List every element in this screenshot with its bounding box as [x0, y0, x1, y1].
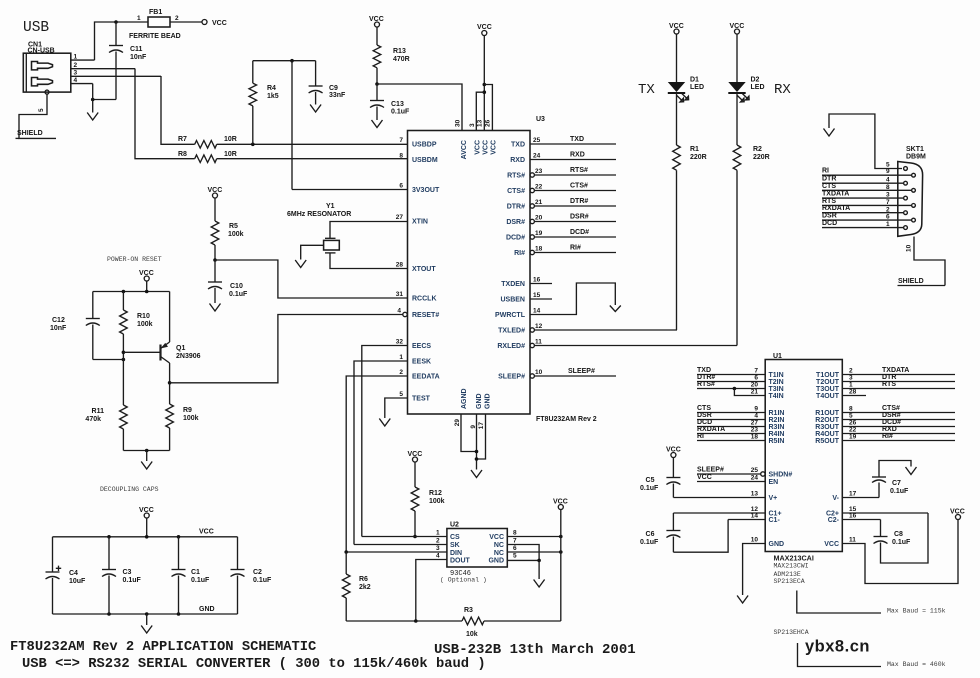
svg-text:SLEEP#: SLEEP# [697, 467, 724, 474]
resistor R2 [733, 145, 770, 346]
svg-text:1: 1 [137, 15, 141, 22]
svg-text:CTS: CTS [822, 183, 836, 190]
U1 pin 7 T1IN [697, 367, 784, 379]
svg-text:10: 10 [906, 244, 913, 252]
svg-text:19: 19 [849, 434, 857, 441]
svg-text:C5: C5 [646, 477, 655, 484]
svg-text:DTR#: DTR# [570, 198, 588, 205]
svg-text:XTIN: XTIN [412, 219, 428, 226]
DB9 pin circles right column [912, 173, 916, 222]
ground (U2) [534, 580, 545, 588]
svg-text:27: 27 [396, 214, 404, 221]
U1 pin 16 C2- [828, 513, 881, 525]
pin 25 TXD [511, 136, 616, 149]
svg-text:1: 1 [436, 530, 440, 537]
svg-text:2: 2 [399, 369, 403, 376]
pin 11 RXLED# [497, 339, 737, 351]
resistor R8 [178, 151, 237, 163]
VCC terminal (D2) [730, 23, 745, 34]
svg-text:SLEEP#: SLEEP# [498, 374, 525, 381]
svg-text:USB-232B 13th March 2001: USB-232B 13th March 2001 [434, 642, 636, 658]
wire RCCLK [215, 260, 408, 298]
pin 1 EESK [399, 354, 431, 366]
label SP213EHCA [774, 629, 809, 636]
svg-text:13: 13 [477, 119, 484, 127]
DB9 pin 10 shield tab [906, 237, 946, 286]
svg-text:DTR#: DTR# [697, 374, 715, 381]
U1 pin 24 EN [697, 474, 778, 486]
pin 21 DTR# [507, 198, 616, 211]
node R5/C10/RCCLK [213, 258, 217, 262]
svg-text:1: 1 [74, 54, 78, 61]
U2 pin 3 DIN [344, 545, 462, 557]
svg-text:28: 28 [396, 262, 404, 269]
svg-text:100k: 100k [228, 231, 244, 238]
connector CN1 CN-USB [23, 42, 71, 113]
svg-text:FT8U232AM Rev 2: FT8U232AM Rev 2 [536, 416, 597, 423]
U1 pin 11 VCC [824, 520, 958, 584]
svg-text:0.1uF: 0.1uF [391, 109, 410, 116]
U1 pin 25 SHDN# [697, 467, 792, 479]
svg-text:EESK: EESK [412, 359, 431, 366]
svg-text:TXDEN: TXDEN [501, 281, 525, 288]
wire base [123, 351, 159, 353]
svg-text:14: 14 [533, 308, 541, 315]
svg-text:SHIELD: SHIELD [17, 130, 43, 137]
svg-text:DTR#: DTR# [507, 204, 525, 211]
IC U3 FT8U232AM [408, 116, 597, 423]
resistor R5 [211, 198, 243, 260]
svg-text:GND: GND [488, 558, 504, 565]
pin 8 USBDM [399, 153, 437, 165]
U1 pin 1 T3OUT [816, 381, 955, 393]
svg-text:18: 18 [751, 434, 759, 441]
svg-text:DOUT: DOUT [450, 558, 471, 565]
capacitor C10 [208, 260, 248, 303]
DB9 pin 5 number [886, 162, 890, 169]
capacitor C1 [172, 537, 211, 614]
svg-text:DCD#: DCD# [570, 229, 589, 236]
svg-text:14: 14 [751, 513, 759, 520]
svg-text:SHIELD: SHIELD [898, 278, 924, 285]
IC U2 93C46 [440, 522, 507, 584]
U2 pin 7 NC [494, 538, 539, 561]
U1 pin 8 R1OUT [815, 405, 955, 417]
svg-text:R9: R9 [183, 407, 192, 414]
U2 pin 6 NC [494, 545, 563, 557]
svg-text:25: 25 [533, 137, 541, 144]
svg-text:0.1uF: 0.1uF [640, 485, 659, 492]
svg-text:Q1: Q1 [176, 345, 185, 352]
svg-text:9: 9 [754, 406, 758, 413]
node collector [168, 381, 172, 385]
svg-text:RXDATA: RXDATA [822, 205, 850, 212]
svg-text:13: 13 [751, 491, 759, 498]
svg-text:C9: C9 [329, 85, 338, 92]
svg-text:C8: C8 [894, 531, 903, 538]
svg-text:5: 5 [849, 413, 853, 420]
svg-text:0.1uF: 0.1uF [229, 291, 248, 298]
svg-text:RXDATA: RXDATA [697, 426, 725, 433]
svg-text:R5OUT: R5OUT [815, 438, 839, 445]
svg-text:R4IN: R4IN [769, 431, 785, 438]
svg-text:17: 17 [849, 491, 857, 498]
VCC terminal (FB1) [202, 20, 227, 28]
ground (decaps) [141, 614, 152, 633]
svg-text:R11: R11 [92, 408, 105, 415]
svg-text:RTS: RTS [882, 381, 896, 388]
U1 pin 4 R2IN [697, 412, 784, 424]
svg-text:DB9M: DB9M [906, 154, 926, 161]
svg-text:RI#: RI# [514, 250, 525, 257]
capacitor C8 [874, 513, 929, 563]
svg-text:10k: 10k [466, 631, 478, 638]
U1 pin 21 T4IN [734, 389, 783, 401]
U1 pin 6 T2IN [697, 374, 784, 386]
svg-text:26: 26 [485, 119, 492, 127]
svg-text:9: 9 [886, 168, 890, 175]
VCC terminal (reset) [139, 270, 154, 281]
pin 28 XTOUT [396, 262, 437, 274]
svg-text:R4: R4 [267, 85, 276, 92]
svg-text:USBDP: USBDP [412, 142, 437, 149]
svg-text:DSR#: DSR# [882, 412, 901, 419]
connector SKT1 DB9M [898, 146, 926, 236]
svg-text:7: 7 [513, 538, 517, 545]
resistor R9 [166, 383, 199, 451]
ground (PWRCTL arrow) [610, 306, 621, 312]
resistor R11 [85, 405, 127, 451]
U1 pin 5 R2OUT [815, 412, 955, 424]
svg-text:100k: 100k [183, 415, 199, 422]
svg-text:C13: C13 [391, 101, 404, 108]
wire DOUT pull-up row [346, 619, 462, 623]
logo ybx8.cn [805, 638, 870, 656]
pin 7 USBDP [399, 137, 436, 149]
svg-text:DCD#: DCD# [506, 235, 525, 242]
wire EESK [354, 361, 408, 545]
ground (U1) [737, 596, 748, 604]
svg-text:2: 2 [436, 538, 440, 545]
svg-text:1: 1 [399, 354, 403, 361]
capacitor C6 [640, 513, 728, 552]
wire GND rail (decaps) [53, 606, 238, 616]
svg-text:7: 7 [754, 368, 758, 375]
svg-text:C1: C1 [191, 569, 200, 576]
svg-text:RXLED#: RXLED# [497, 343, 525, 350]
VCC terminal (U2) [553, 499, 568, 622]
svg-text:MAX213CWI: MAX213CWI [774, 563, 809, 570]
svg-text:R1OUT: R1OUT [815, 410, 839, 417]
svg-text:16: 16 [533, 277, 541, 284]
pin 16 TXDEN [501, 277, 552, 289]
svg-text:2k2: 2k2 [359, 584, 371, 591]
U1 pin 20 T3IN [697, 381, 784, 393]
svg-text:DTR: DTR [882, 374, 896, 381]
svg-text:R7: R7 [178, 136, 187, 143]
wire pin1 up to FB1 [95, 22, 117, 60]
svg-text:22: 22 [849, 427, 857, 434]
label DECOUPLING CAPS [100, 486, 159, 493]
pin 18 RI# [514, 245, 616, 258]
svg-text:8: 8 [399, 153, 403, 160]
svg-text:470R: 470R [393, 56, 410, 63]
svg-text:29: 29 [454, 419, 461, 427]
ground (C7) [906, 467, 917, 475]
svg-text:RCCLK: RCCLK [412, 296, 437, 303]
svg-text:100k: 100k [137, 321, 153, 328]
svg-text:2: 2 [175, 15, 179, 22]
net SHIELD (DB9) [898, 278, 946, 286]
resistor R10 [120, 292, 153, 406]
ferrite bead FB1 [116, 9, 202, 40]
svg-text:DCD#: DCD# [882, 419, 901, 426]
svg-text:10: 10 [751, 537, 759, 544]
svg-text:220R: 220R [690, 154, 707, 161]
svg-text:FERRITE BEAD: FERRITE BEAD [129, 33, 181, 40]
ground (C13) [372, 120, 383, 128]
svg-text:33nF: 33nF [329, 92, 346, 99]
svg-text:3: 3 [849, 375, 853, 382]
svg-text:AGND: AGND [461, 388, 468, 409]
svg-text:24: 24 [751, 475, 759, 482]
pin 15 USBEN [500, 292, 552, 304]
svg-text:C12: C12 [52, 317, 65, 324]
svg-text:DECOUPLING CAPS: DECOUPLING CAPS [100, 486, 159, 493]
pin 30 AVCC [455, 119, 469, 159]
pin 4 stub [71, 77, 93, 84]
wire reset top rail [93, 281, 170, 293]
svg-text:C7: C7 [892, 480, 901, 487]
svg-text:1: 1 [886, 221, 890, 228]
DB9 wire RI [822, 168, 911, 176]
wire RESET# net [170, 315, 403, 383]
pin 23 RTS# [507, 167, 616, 180]
VCC terminal (C5) [666, 447, 681, 458]
U1 pin 12 C1+ [673, 506, 781, 518]
svg-text:DSR#: DSR# [506, 219, 525, 226]
pin 2 stub [71, 62, 135, 69]
svg-text:RXD: RXD [882, 426, 897, 433]
svg-text:SP213ECA: SP213ECA [774, 578, 805, 585]
svg-text:C2-: C2- [828, 517, 840, 524]
svg-text:T1IN: T1IN [769, 372, 784, 379]
VCC terminal (D1) [669, 23, 684, 34]
svg-text:DCD: DCD [697, 419, 712, 426]
svg-text:SLEEP#: SLEEP# [568, 368, 595, 375]
label POWER-ON RESET [107, 256, 162, 263]
svg-text:8: 8 [849, 406, 853, 413]
VCC terminal (R5) [208, 187, 223, 198]
svg-text:TXD: TXD [511, 142, 525, 149]
U1 pin 19 R5OUT [815, 433, 955, 445]
U2 pin 2 SK [354, 538, 460, 550]
svg-text:12: 12 [535, 323, 543, 330]
VCC terminal (R12) [408, 451, 423, 462]
U2 pin 8 VCC [489, 530, 562, 542]
svg-text:2: 2 [849, 368, 853, 375]
svg-text:27: 27 [751, 420, 759, 427]
svg-text:C4: C4 [69, 570, 78, 577]
svg-text:V-: V- [832, 495, 839, 502]
svg-text:25: 25 [751, 467, 759, 474]
U1 pin 15 C2+ [826, 506, 928, 518]
wire TEST [385, 398, 408, 418]
svg-text:ybx8.cn: ybx8.cn [805, 638, 870, 656]
U2 pin 4 DOUT [416, 553, 471, 622]
U1 pin 18 R5IN [697, 433, 784, 445]
svg-text:19: 19 [535, 230, 543, 237]
U1 pin 23 R4IN [697, 426, 784, 438]
capacitor C9 [309, 61, 346, 105]
svg-text:USBDM: USBDM [412, 157, 438, 164]
resistor R13 [373, 27, 410, 84]
svg-text:C10: C10 [230, 283, 243, 290]
svg-text:20: 20 [751, 382, 759, 389]
svg-text:T4IN: T4IN [769, 393, 784, 400]
wire reset bottom rail [123, 449, 169, 461]
svg-text:1: 1 [849, 382, 853, 389]
svg-text:32: 32 [396, 339, 404, 346]
svg-text:EEDATA: EEDATA [412, 374, 440, 381]
svg-text:VCC: VCC [824, 541, 839, 548]
svg-text:CTS#: CTS# [882, 405, 900, 412]
U1 pin 3 T2OUT [816, 374, 955, 386]
svg-text:2N3906: 2N3906 [176, 353, 201, 360]
DB9 wire DCD [822, 220, 903, 228]
wire VCC to U3 pins [476, 36, 492, 131]
svg-text:RXD: RXD [570, 152, 585, 159]
pin 29 AGND [454, 388, 468, 426]
capacitor C3 [102, 537, 142, 614]
svg-text:26: 26 [849, 420, 857, 427]
svg-text:V+: V+ [769, 495, 778, 502]
resistor R1 [673, 145, 707, 330]
svg-text:EN: EN [769, 479, 779, 486]
pin 12 TXLED# [498, 323, 677, 335]
DB9 wire RTS [822, 198, 911, 206]
svg-text:U2: U2 [450, 522, 459, 529]
pin 10 SLEEP# [498, 368, 616, 381]
ground (USB pin4) [87, 84, 98, 120]
ground (C9) [310, 105, 321, 113]
svg-text:R8: R8 [178, 151, 187, 158]
svg-text:DCD: DCD [822, 220, 837, 227]
svg-text:C1-: C1- [769, 517, 781, 524]
svg-text:T3OUT: T3OUT [816, 386, 840, 393]
VCC terminal (U1) [950, 509, 965, 520]
title date [434, 642, 636, 658]
svg-text:LED: LED [751, 84, 765, 91]
svg-text:VCC: VCC [489, 534, 504, 541]
U2 pin 1 CS [362, 530, 460, 542]
capacitor C2 [231, 537, 273, 614]
VCC terminal (U3) [477, 24, 492, 36]
svg-text:10nF: 10nF [130, 54, 147, 61]
pin 1 stub [71, 54, 95, 61]
svg-text:SHDN#: SHDN# [769, 472, 793, 479]
svg-text:CS: CS [450, 534, 460, 541]
ground (C10) [210, 304, 221, 312]
node R4/R7 [251, 143, 255, 147]
svg-text:R3IN: R3IN [769, 424, 785, 431]
svg-text:10: 10 [535, 369, 543, 376]
U1 pin 9 R1IN [697, 405, 784, 417]
DB9 wire DTR [822, 176, 903, 184]
svg-text:R10: R10 [137, 313, 150, 320]
svg-text:R5IN: R5IN [769, 438, 785, 445]
svg-text:3: 3 [886, 192, 890, 199]
svg-text:VCC: VCC [475, 140, 482, 155]
wire AVCC [377, 84, 462, 131]
svg-text:C2: C2 [253, 569, 262, 576]
svg-text:CTS#: CTS# [507, 188, 525, 195]
pin 32 EECS [396, 339, 432, 351]
svg-text:U3: U3 [536, 116, 545, 123]
svg-text:10R: 10R [224, 136, 237, 143]
svg-text:T2IN: T2IN [769, 379, 784, 386]
svg-text:3: 3 [74, 70, 78, 77]
svg-text:R3OUT: R3OUT [815, 424, 839, 431]
svg-text:R2IN: R2IN [769, 417, 785, 424]
svg-text:C3: C3 [123, 569, 132, 576]
ground (DB9 pin5) [824, 129, 835, 137]
svg-text:4: 4 [397, 308, 401, 315]
pin 17 GND [478, 393, 492, 429]
svg-text:220R: 220R [753, 154, 770, 161]
svg-text:R2: R2 [753, 146, 762, 153]
pin 3 VCC [469, 123, 482, 155]
svg-text:D1: D1 [690, 77, 699, 84]
U1 pin 13 V+ [673, 491, 777, 503]
LED D2 [728, 34, 764, 145]
transistor Q1 2N3906 [161, 292, 201, 383]
svg-text:DSR: DSR [822, 213, 837, 220]
IC U1 MAX213 [765, 353, 842, 585]
svg-text:VCC: VCC [491, 140, 498, 155]
svg-text:LED: LED [690, 84, 704, 91]
resistor R12 [411, 462, 444, 537]
svg-text:7: 7 [399, 137, 403, 144]
U1 pin 2 T1OUT [816, 367, 955, 379]
pin 6 3V3OUT [292, 183, 440, 195]
pin 26 VCC [485, 119, 498, 154]
svg-text:GND: GND [769, 541, 785, 548]
DB9 wire RXDATA [822, 205, 903, 213]
svg-text:3V3OUT: 3V3OUT [412, 187, 440, 194]
callout SP213EHCA max baud [798, 643, 946, 668]
wire R8 to U3 USBDM [217, 158, 408, 160]
svg-text:NC: NC [494, 550, 504, 557]
svg-text:VCC: VCC [697, 474, 712, 481]
svg-text:( Optional ): ( Optional ) [440, 577, 487, 584]
pin 20 DSR# [506, 214, 616, 227]
svg-text:C6: C6 [646, 531, 655, 538]
svg-text:USBEN: USBEN [500, 297, 525, 304]
U1 pin 26 R3OUT [815, 419, 955, 431]
svg-text:10uF: 10uF [69, 578, 86, 585]
U1 pin 27 R3IN [697, 419, 784, 431]
svg-text:DSR: DSR [697, 412, 712, 419]
capacitor C4 [46, 537, 87, 614]
svg-text:0.1uF: 0.1uF [191, 577, 210, 584]
label RX [774, 82, 791, 98]
label TX [638, 82, 655, 98]
svg-text:16: 16 [849, 513, 857, 520]
svg-text:8: 8 [886, 184, 890, 191]
svg-text:10R: 10R [224, 151, 237, 158]
svg-text:TXLED#: TXLED# [498, 328, 525, 335]
